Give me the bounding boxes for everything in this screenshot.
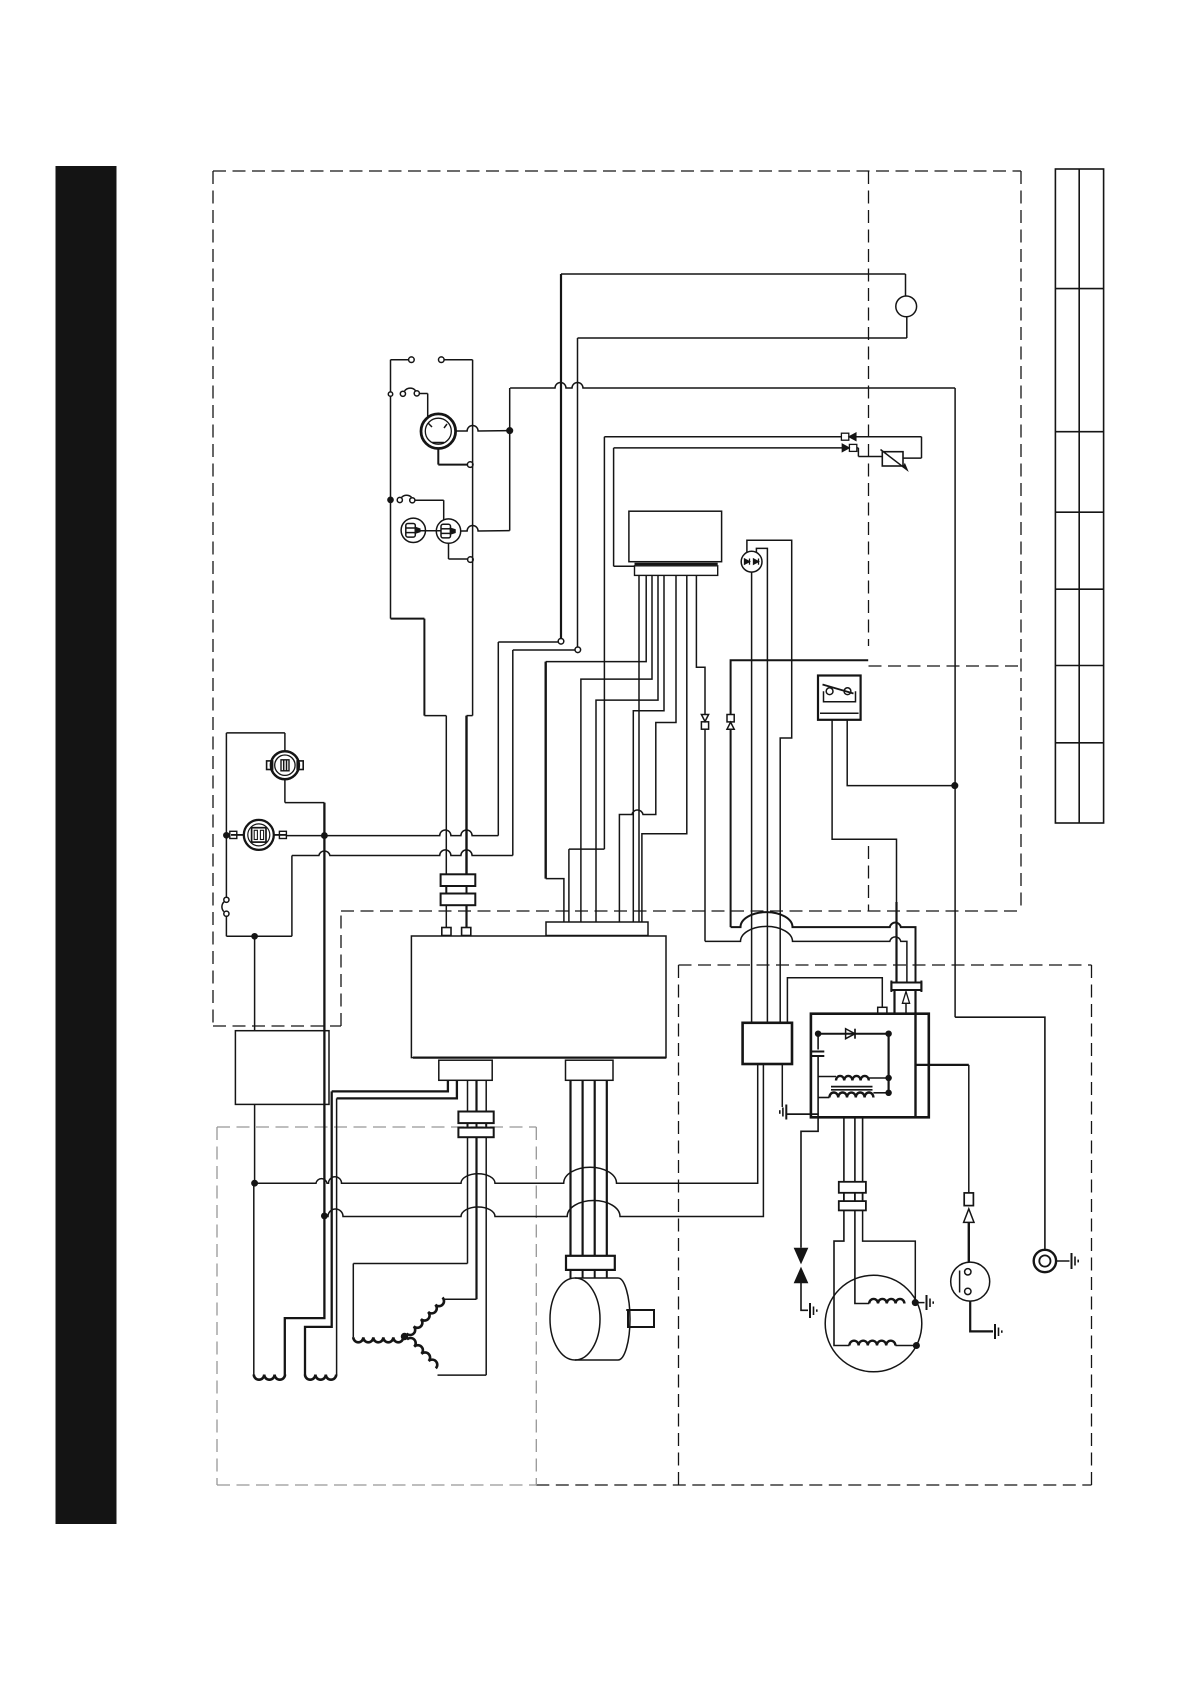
- wire: right lamp lead jog: [467, 715, 473, 717]
- wire: pin1 to source coil low: [834, 1210, 849, 1345]
- wire: right terminal lead down: [444, 359, 473, 361]
- wire+ground: spark gap: [801, 1283, 808, 1311]
- wire: rectifier output 2: [324, 1064, 763, 1217]
- wire: rectifier ground: [781, 1064, 783, 1107]
- wire: tail lamp feed: [284, 733, 286, 751]
- magneto flywheel: [825, 1275, 922, 1372]
- wire: horn feed loop top: [561, 273, 906, 275]
- starter motor coupler: [566, 1256, 615, 1270]
- tail/stop twin bulbs: [401, 518, 461, 543]
- magneto coupler pair: [839, 1182, 866, 1211]
- wire: kill circuit from coil to spark gap: [801, 1117, 818, 1248]
- wire: kill lead right 2: [731, 660, 869, 714]
- node dot: [402, 1334, 408, 1340]
- source coil high-speed: [869, 1299, 904, 1304]
- wire: switch to headlamp: [419, 393, 427, 395]
- wire: bulb return to terminal: [448, 543, 450, 559]
- wire: brake switch lead 1: [832, 720, 896, 902]
- staircase harness wire 4: [633, 575, 664, 922]
- wire: second accessory line: [292, 850, 513, 856]
- terminal: bullet connector L: [558, 639, 564, 645]
- charge coil 1 (lighting coil): [254, 1375, 285, 1380]
- junction dot fuse left: [224, 833, 229, 838]
- wire: brake lamp lead right 1: [696, 575, 705, 714]
- terminal: bulb return bullet: [468, 557, 474, 563]
- coil core: [831, 1086, 873, 1088]
- handlebar switch unit: [629, 511, 722, 562]
- wire: pin3 to pickup/ground junction: [863, 1210, 916, 1300]
- CDI bottom coupler left: [439, 1060, 492, 1080]
- wire: twin bulb to harness: [461, 526, 510, 532]
- wire: kill lead vertical to spark plug region: [954, 388, 956, 1017]
- coil internal: diode line: [818, 1033, 889, 1035]
- wire: coil feed lower: [705, 926, 907, 982]
- wire: spark plug lead: [955, 1017, 1045, 1250]
- headlamp: [421, 414, 456, 449]
- fuse: [230, 820, 287, 850]
- wire: vertical harness pair from terminals: [560, 274, 562, 639]
- spark gap arrows: [795, 1249, 807, 1263]
- wire: coil case lead to rectifier 4th input: [787, 978, 882, 1023]
- wire: stator lead B: [475, 1137, 477, 1299]
- frame: ignition group dashed border: [536, 965, 1091, 1485]
- horn: [896, 296, 917, 317]
- connector: headlight coupler pair: [441, 874, 476, 905]
- stator Y winding: left phase: [353, 1263, 467, 1265]
- charge coil 2: [305, 1375, 336, 1380]
- wire: 4-core CDI to starter motor: [571, 1080, 607, 1256]
- wire: stator lead C: [485, 1137, 487, 1375]
- wire: battery through lead (tail harness): [323, 803, 325, 1216]
- coil internal: capacitor: [817, 1034, 819, 1050]
- contact breaker: [951, 1262, 990, 1301]
- wire: breaker lead with coupler: [968, 1065, 970, 1193]
- wire: left terminal to switch: [391, 359, 409, 361]
- stator lower phase: [407, 1338, 437, 1368]
- staircase harness wire 5: [619, 575, 676, 922]
- wire: horn button line: [613, 448, 615, 566]
- wire: CDI to charge coil 1: [332, 1080, 448, 1091]
- coil internal: HT feed: [887, 1034, 889, 1093]
- staircase harness wire 3: [596, 575, 658, 922]
- diode symbol: [846, 1029, 855, 1039]
- wire: CDI to charge coil 2: [337, 1080, 457, 1098]
- wire: coil feed upper: [731, 912, 916, 982]
- lighting switch: [388, 392, 392, 396]
- wire: long lead headlamp common to magneto kill area: [510, 383, 955, 389]
- handlebar switch coupler: [635, 563, 718, 566]
- stator coupler pair: [458, 1112, 493, 1138]
- wire: pin2 to source coil high: [855, 1210, 869, 1303]
- coil internal: primary winding: [818, 1076, 836, 1078]
- spark plug: [1034, 1250, 1056, 1272]
- wire: tail lamp return to harness: [284, 779, 286, 802]
- diode unit: [741, 551, 762, 572]
- frame: handlebar/headlight group dashed border: [213, 171, 1021, 1026]
- wire: horn return: [906, 317, 908, 338]
- wire: battery negative to lighting coil: [254, 1104, 256, 1183]
- junction dot headlamp feed: [507, 428, 513, 434]
- rectifier/regulator: [743, 1023, 792, 1064]
- wire: rectifier output 1 (to lighting circuit): [255, 1064, 758, 1183]
- wire: diode bottom lead: [751, 572, 753, 1023]
- wire: brake switch lead 2: [847, 720, 955, 786]
- wire: coil box to ground: [786, 1114, 818, 1117]
- CDI top pin terminals: [442, 928, 451, 936]
- staircase harness wire 6: [642, 575, 687, 922]
- wire: coupler to CDI pins: [445, 905, 447, 927]
- wire: stator lead A: [467, 1137, 469, 1263]
- staircase harness wire 2: [581, 575, 652, 922]
- main switch: [224, 897, 229, 902]
- CDI bottom coupler right: [566, 1060, 614, 1080]
- wire: battery negative lead: [254, 936, 256, 1030]
- wire: resistor line 2 with connector pins: [614, 447, 843, 449]
- staircase harness wire 1: [546, 575, 647, 661]
- wire: fuse feed line to headlamp circuit: [287, 830, 499, 836]
- coil case terminal: [878, 1007, 887, 1014]
- coil connector pins below: [893, 990, 895, 1014]
- starter motor: [550, 1278, 654, 1360]
- junction dot on battery lead: [322, 833, 327, 838]
- junction dot battery through lead: [322, 1213, 327, 1218]
- wire: HT lead out to breaker: [916, 1064, 969, 1066]
- connector pin pair R2: [727, 715, 734, 722]
- terminal circles above headlamp: [409, 357, 415, 363]
- connector pin pair R1: [701, 715, 708, 722]
- terminal: bullet connector R: [575, 647, 581, 653]
- wire: resistor line 1 with connector pins: [604, 436, 841, 438]
- battery: [235, 1031, 329, 1105]
- junction dot coil1 left: [252, 1181, 257, 1186]
- wire: feed riser to bullet terminal: [497, 642, 499, 836]
- brake switch: [818, 676, 861, 720]
- coil internal: secondary winding: [818, 1097, 829, 1099]
- left black sidebar: [56, 166, 117, 1524]
- wire: switch to battery junction: [225, 916, 227, 936]
- tail lamp bulb: [267, 751, 304, 779]
- wire: lamp switch common lead down: [390, 396, 392, 497]
- wire: headlamp to junction: [456, 426, 510, 431]
- dimmer switch: [388, 497, 393, 502]
- CDI top multi-pin coupler: [546, 922, 648, 936]
- staircase harness wire 7: [638, 575, 640, 922]
- wire: coil box to magneto coupler pins: [843, 1117, 845, 1182]
- source coil low-speed: [849, 1341, 895, 1346]
- wiring-color legend table: [1055, 169, 1103, 823]
- CDI unit main box: [411, 936, 666, 1058]
- wire: dimmer line to coupler: [603, 437, 605, 849]
- resistor (sensor): [882, 452, 903, 466]
- ignition coil connector bar: [891, 981, 921, 993]
- junction dot + ground magneto: [913, 1300, 919, 1306]
- terminal: headlamp beam bullet: [467, 462, 473, 468]
- ground symbol rectifier/coil: [780, 1105, 787, 1120]
- wire: diode top lead 1: [747, 540, 792, 1023]
- wire+ground: breaker: [970, 1301, 993, 1331]
- wire: CDI to stator coupler: [467, 1080, 469, 1111]
- junction dot kill line: [952, 783, 958, 789]
- wire+ground: spark plug: [1056, 1260, 1069, 1262]
- ignition coil unit box: [811, 1014, 929, 1118]
- frame: magneto group dashed border (gray): [217, 1127, 536, 1485]
- wire: headlamp low beam to terminal: [437, 449, 439, 465]
- stator upper phase: [407, 1298, 444, 1335]
- wire: diode top lead 2: [756, 548, 767, 1022]
- wire: battery lead to charge coil 1: [285, 1216, 325, 1375]
